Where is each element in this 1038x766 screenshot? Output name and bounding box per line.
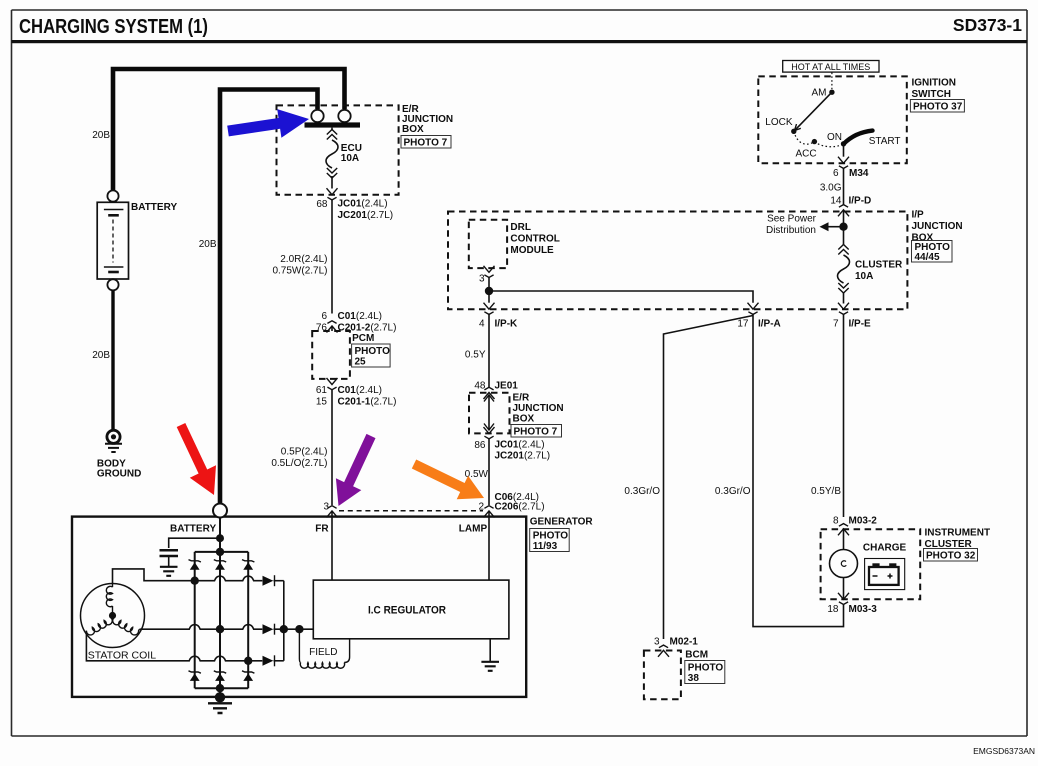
node: phase W tap — [244, 657, 252, 665]
label BODY GROUND — [97, 459, 141, 480]
connector 8 M03-2 — [838, 524, 849, 536]
diode D6 (bottom leg3) — [242, 671, 254, 681]
node: collector to regulator — [280, 625, 288, 633]
dotted detent arc LOCK-ACC-ON — [794, 131, 844, 146]
label BATTERY — [131, 202, 177, 213]
svg-text:18: 18 — [827, 604, 839, 615]
wire node to I/P-A (horizontal) — [489, 291, 753, 303]
svg-text:SD373-1: SD373-1 — [953, 15, 1022, 35]
svg-text:0.3Gr/O: 0.3Gr/O — [624, 486, 660, 497]
svg-text:20B: 20B — [92, 130, 110, 141]
svg-text:48: 48 — [474, 381, 486, 392]
connector 3 M02-1 — [658, 645, 669, 657]
node: field tap — [295, 625, 303, 633]
body ground G01 — [105, 430, 122, 452]
label DRL CONTROL MODULE — [510, 222, 559, 256]
generator B+ terminal circle — [213, 504, 227, 518]
label JC01(2.4L) JC201(2.7L) — [338, 199, 394, 222]
pin 3 (DRL) — [479, 274, 485, 285]
purple callout arrow (FR terminal) — [336, 434, 376, 506]
rectifier top rail — [195, 551, 249, 553]
node: power distribution tap — [839, 223, 847, 231]
svg-text:FIELD: FIELD — [309, 647, 337, 658]
label 0.3Gr/O (right) — [715, 486, 751, 497]
E/R junction box (engine room) dashed outline — [277, 105, 399, 194]
wire into charge lamp — [843, 529, 845, 550]
label JC01(2.4L) JC201(2.7L) (86) — [495, 440, 551, 462]
connector 6/76 C01/C201-2 into PCM — [327, 321, 338, 333]
I/P junction box dashed outline — [448, 212, 907, 310]
svg-text:I/P: I/P — [912, 210, 925, 221]
phase wire W (bottom) — [86, 632, 262, 661]
pin 4 I/P-K — [479, 319, 518, 330]
terminal circle (right stud) — [338, 110, 350, 122]
wire FR into regulator — [331, 511, 333, 580]
diode D9 (phase W output) — [263, 655, 275, 666]
svg-text:15: 15 — [316, 397, 328, 408]
svg-text:EMGSD6373AN: EMGSD6373AN — [973, 746, 1035, 756]
label BCM — [685, 650, 708, 661]
svg-text:7: 7 — [833, 319, 839, 330]
svg-text:17: 17 — [737, 319, 749, 330]
contact AM — [812, 88, 835, 99]
wire DRL to node — [488, 278, 490, 292]
pin 86 — [474, 440, 486, 451]
svg-text:GROUND: GROUND — [97, 469, 141, 480]
label 0.3Gr/O (left) — [624, 486, 660, 497]
svg-text:JUNCTION: JUNCTION — [912, 221, 963, 232]
wire 0.3Gr/O from I/P-A to BCM (diagonal) — [664, 316, 754, 640]
pin 3 M02-1 — [654, 637, 698, 648]
svg-text:4: 4 — [479, 319, 485, 330]
connector 2 (LAMP input) — [484, 506, 495, 518]
svg-text:6: 6 — [833, 168, 839, 179]
label PHOTO 32 — [924, 549, 978, 562]
svg-text:FR: FR — [315, 524, 329, 535]
pin 17 I/P-A — [737, 319, 780, 330]
svg-text:BOX: BOX — [402, 124, 424, 135]
svg-text:3.0G: 3.0G — [820, 183, 842, 194]
field coil L1 — [299, 629, 349, 668]
see power distribution arrow — [820, 222, 844, 231]
fuse ECU 10A — [326, 128, 338, 189]
wire I/P-D to node — [843, 210, 845, 227]
label PCM — [352, 333, 374, 344]
blue callout arrow (E/R junction box terminals) — [227, 109, 309, 138]
svg-text:0.3Gr/O: 0.3Gr/O — [715, 486, 751, 497]
wire 0.5Y/B from I/P-E to cluster — [843, 314, 845, 517]
svg-text:0.5Y: 0.5Y — [465, 350, 486, 361]
svg-text:BOX: BOX — [513, 414, 535, 425]
svg-text:44/45: 44/45 — [915, 252, 940, 263]
label PHOTO 11/93 — [530, 529, 570, 553]
label HOT AT ALL TIMES — [783, 61, 879, 73]
svg-text:0.75W(2.7L): 0.75W(2.7L) — [272, 266, 327, 277]
pin 3 (C06) — [323, 502, 329, 513]
label ECU 10A — [341, 143, 362, 164]
connector 17 I/P-A — [748, 303, 759, 315]
pin 14 I/P-D — [830, 196, 871, 207]
contact ACC — [795, 139, 817, 160]
svg-text:GENERATOR: GENERATOR — [530, 517, 594, 528]
wire 0.5W to generator LAMP — [488, 439, 490, 505]
svg-text:AM: AM — [812, 88, 827, 99]
svg-text:START: START — [869, 136, 901, 147]
svg-text:I/P-A: I/P-A — [758, 319, 781, 330]
drawing code EMGSD6373AN — [973, 746, 1035, 756]
ground (regulator) — [481, 662, 499, 671]
BCM dashed box — [644, 651, 681, 700]
wire diode V to collector / regulator — [274, 628, 314, 630]
label FIELD — [309, 647, 337, 658]
node: DRL/cluster feed junction — [485, 287, 493, 295]
svg-text:ON: ON — [827, 132, 842, 143]
svg-text:0.5P(2.4L): 0.5P(2.4L) — [281, 447, 328, 458]
pin 68 — [316, 199, 328, 210]
svg-text:SWITCH: SWITCH — [912, 89, 951, 100]
node: phase U tap — [191, 577, 199, 585]
svg-text:C01(2.4L): C01(2.4L) — [338, 311, 382, 322]
svg-text:INSTRUMENT: INSTRUMENT — [925, 528, 991, 539]
label GENERATOR — [530, 517, 594, 528]
pass-through wire arrow inside E/R box — [484, 395, 494, 430]
node: case ground — [215, 692, 225, 702]
svg-text:68: 68 — [316, 199, 328, 210]
fuse CLUSTER 10A — [838, 245, 850, 304]
label PHOTO 7 — [401, 136, 451, 149]
svg-text:HOT AT ALL TIMES: HOT AT ALL TIMES — [791, 62, 870, 72]
PCM dashed box — [312, 331, 350, 379]
title: CHARGING SYSTEM (1) — [19, 15, 208, 38]
svg-text:86: 86 — [474, 440, 486, 451]
svg-text:I/P-K: I/P-K — [495, 319, 519, 330]
wire: thick generator output (20B) from E/R junction box to generator B+ — [220, 90, 318, 504]
svg-text:3: 3 — [479, 274, 485, 285]
phase wire U (top) — [113, 569, 263, 584]
wire: thick battery positive feed (20B) from battery to E/R junction box — [113, 69, 345, 192]
label INSTRUMENT CLUSTER — [925, 528, 991, 551]
suppression capacitor C — [160, 538, 221, 566]
label C06(2.4L) C206(2.7L) — [495, 492, 545, 513]
wire 3.0G — [843, 168, 845, 204]
switch blade AM-LOCK — [794, 92, 832, 131]
thick blade ON-START — [844, 131, 901, 147]
svg-text:JE01: JE01 — [495, 381, 519, 392]
svg-text:IGNITION: IGNITION — [912, 78, 956, 89]
svg-text:3: 3 — [654, 637, 660, 648]
svg-text:PCM: PCM — [352, 333, 374, 344]
connector 18 M03-3 — [838, 593, 849, 605]
ground (generator case) — [208, 703, 232, 713]
label E/R JUNCTION BOX — [402, 104, 453, 135]
svg-text:Distribution: Distribution — [766, 225, 816, 236]
svg-text:DRL: DRL — [510, 222, 531, 233]
svg-text:CLUSTER: CLUSTER — [855, 260, 903, 271]
wire node down to I/P-K — [488, 291, 490, 303]
battery BAT01 — [97, 190, 128, 290]
svg-text:BATTERY: BATTERY — [170, 524, 216, 535]
label PHOTO 25 — [352, 344, 391, 368]
svg-text:0.5L/O(2.7L): 0.5L/O(2.7L) — [271, 458, 327, 469]
svg-text:PHOTO 7: PHOTO 7 — [404, 138, 448, 149]
wire ON to M34 — [843, 144, 845, 157]
label C01(2.4L) C201-2(2.7L) — [338, 311, 397, 334]
diode D5 (bottom leg2) — [214, 671, 226, 681]
label 0.5Y — [465, 350, 486, 361]
connector 7 I/P-E — [838, 303, 849, 315]
svg-text:M03-2: M03-2 — [849, 516, 878, 527]
pin 48 JE01 — [474, 381, 518, 392]
svg-text:I/P-E: I/P-E — [849, 319, 872, 330]
label PHOTO 37 — [910, 100, 964, 113]
label 20B (battery feed) — [92, 130, 110, 141]
E/R junction box (pass-through) dashed — [469, 393, 510, 434]
connector 3 (FR input) — [327, 506, 338, 518]
svg-text:JUNCTION: JUNCTION — [513, 403, 564, 414]
wire 0.5Y from I/P-K to JE01 — [488, 314, 490, 381]
wire diode W to collector — [274, 660, 284, 662]
label 0.5Y/B — [811, 486, 841, 497]
label 2.0R(2.4L) 0.75W(2.7L) — [272, 254, 327, 277]
label 0.5W — [465, 469, 489, 480]
svg-text:LAMP: LAMP — [459, 524, 488, 535]
sheet number SD373-1 — [953, 15, 1022, 35]
svg-text:PHOTO: PHOTO — [355, 346, 391, 357]
svg-text:I.C REGULATOR: I.C REGULATOR — [368, 605, 446, 617]
wire to generator ground — [219, 688, 221, 697]
connector 4 I/P-K — [484, 303, 495, 315]
node: stator star point — [109, 612, 116, 619]
svg-text:STATOR COIL: STATOR COIL — [88, 650, 156, 662]
I.C regulator box U2 — [313, 580, 509, 639]
charge battery icon — [865, 559, 905, 590]
DRL control module dashed box — [469, 220, 507, 268]
svg-text:M03-3: M03-3 — [849, 604, 878, 615]
connector 6 M34 — [838, 157, 849, 169]
label PHOTO 44/45 — [912, 241, 953, 264]
diode D4 (bottom leg1) — [189, 671, 201, 681]
svg-text:PHOTO 37: PHOTO 37 — [913, 102, 963, 113]
label See Power Distribution — [766, 214, 817, 237]
svg-text:10A: 10A — [341, 153, 359, 164]
svg-text:BCM: BCM — [685, 650, 708, 661]
stator winding V — [86, 616, 112, 635]
connector 68 JC01/JC201 — [327, 188, 338, 200]
wire B+ terminal down to rectifier — [219, 518, 221, 552]
pins 6 / 76 — [316, 311, 328, 334]
wire M03-3 down — [843, 605, 845, 612]
instrument cluster dashed box — [821, 529, 921, 599]
svg-text:CONTROL: CONTROL — [510, 234, 559, 245]
svg-text:C201-1(2.7L): C201-1(2.7L) — [338, 397, 397, 408]
wire regulator to ground — [489, 639, 491, 661]
diode D8 (phase V output) — [263, 624, 275, 635]
svg-text:See Power: See Power — [767, 214, 817, 225]
svg-text:CHARGE: CHARGE — [863, 543, 907, 554]
ignition switch dashed box — [758, 76, 907, 163]
svg-text:38: 38 — [688, 673, 700, 684]
pin 6 M34 — [833, 168, 869, 179]
svg-text:11/93: 11/93 — [533, 541, 558, 552]
wire 0.3Gr/O from I/P-A down (to cluster return) — [753, 314, 844, 626]
terminal circle (left stud) — [311, 110, 323, 122]
bus bar — [305, 122, 361, 127]
svg-text:20B: 20B — [199, 239, 217, 250]
pin 7 I/P-E — [833, 319, 871, 330]
contact ON — [827, 132, 846, 147]
connector 48 JE01 — [484, 382, 495, 400]
svg-text:C206(2.7L): C206(2.7L) — [495, 502, 545, 513]
pin 8 M03-2 — [833, 516, 877, 527]
label CLUSTER 10A — [855, 260, 903, 283]
node: B+ bus junction — [216, 548, 224, 556]
svg-text:I/P-D: I/P-D — [849, 196, 872, 207]
stator coil housing circle — [81, 584, 145, 648]
svg-text:25: 25 — [355, 357, 367, 368]
svg-text:PHOTO: PHOTO — [688, 663, 724, 674]
label STATOR COIL — [88, 650, 156, 662]
label LAMP — [459, 524, 488, 535]
wire diode U to collector — [274, 580, 284, 582]
label I.C REGULATOR — [368, 605, 446, 617]
svg-text:20B: 20B — [92, 350, 110, 361]
node: capacitor tap — [216, 534, 224, 542]
pins 61 / 15 — [316, 385, 328, 408]
wire node to fuse — [843, 227, 845, 245]
label 0.5P(2.4L) 0.5L/O(2.7L) — [271, 447, 327, 470]
svg-text:LOCK: LOCK — [765, 117, 793, 128]
charge warning lamp L1 — [830, 550, 858, 578]
label CHARGE — [863, 543, 907, 554]
label FR — [315, 524, 329, 535]
rectifier leg 3 — [247, 552, 249, 688]
connector line C06 (dashed) — [339, 510, 483, 512]
svg-text:C01(2.4L): C01(2.4L) — [338, 385, 382, 396]
svg-text:MODULE: MODULE — [510, 245, 554, 256]
svg-text:PHOTO: PHOTO — [533, 531, 569, 542]
label 3.0G — [820, 183, 842, 194]
svg-text:0.5Y/B: 0.5Y/B — [811, 486, 841, 497]
label E/R JUNCTION BOX (small) — [513, 393, 564, 425]
diode D7 (phase U output) — [263, 575, 275, 586]
svg-text:8: 8 — [833, 516, 839, 527]
ground (capacitor) — [160, 567, 178, 576]
collector bus wire — [283, 581, 285, 661]
svg-text:JC201(2.7L): JC201(2.7L) — [495, 451, 551, 462]
svg-text:10A: 10A — [855, 271, 873, 282]
svg-text:JC01(2.4L): JC01(2.4L) — [338, 199, 388, 210]
label PHOTO 7 (small E/R box) — [511, 425, 562, 438]
label PHOTO 38 — [685, 661, 725, 685]
phase wire V (middle) — [140, 625, 263, 630]
rectifier bottom rail — [195, 687, 249, 689]
contact LOCK — [765, 117, 796, 134]
svg-text:PHOTO 7: PHOTO 7 — [514, 427, 558, 438]
label I/P JUNCTION BOX — [912, 210, 963, 244]
rectifier leg 1 — [194, 552, 196, 688]
svg-text:BATTERY: BATTERY — [131, 202, 177, 213]
label IGNITION SWITCH — [912, 78, 956, 101]
svg-text:6: 6 — [321, 311, 327, 322]
wire LAMP into regulator — [488, 511, 490, 580]
diode D1 (top leg1) — [189, 560, 201, 570]
dotted feed into AM — [831, 73, 833, 90]
wire 0.5P/0.5L/O from PCM to generator FR — [331, 390, 333, 505]
wire 2.0R/0.75W from E/R box to PCM — [331, 200, 333, 314]
diode D2 (top leg2) — [214, 560, 226, 570]
connector 14 I/P-D — [838, 205, 849, 217]
svg-text:ACC: ACC — [795, 149, 816, 160]
connector 3 (DRL output) — [484, 266, 495, 278]
svg-text:14: 14 — [830, 196, 842, 207]
pin 2 (C06) — [478, 502, 484, 513]
diode D3 (top leg3) — [242, 560, 254, 570]
label 20B (generator feed) — [199, 239, 217, 250]
svg-text:CHARGING SYSTEM (1): CHARGING SYSTEM (1) — [19, 15, 208, 38]
generator box outline — [72, 517, 526, 697]
node: bottom rail junction — [216, 684, 224, 692]
stator winding U — [106, 584, 112, 616]
label 20B (ground strap) — [92, 350, 110, 361]
label BATTERY (generator terminal) — [170, 524, 216, 535]
red callout arrow (generator B+ terminal) — [177, 423, 216, 495]
pin 18 M03-3 — [827, 604, 877, 615]
stator winding W — [113, 616, 140, 635]
rectifier leg 2 — [219, 552, 221, 688]
connector 86 JC01/JC201 — [484, 427, 495, 439]
svg-text:PHOTO 32: PHOTO 32 — [926, 551, 976, 562]
svg-text:E/R: E/R — [513, 393, 530, 404]
connector 61/15 C01/C201-1 out of PCM — [327, 378, 338, 390]
node: phase V tap — [216, 625, 224, 633]
svg-text:M34: M34 — [849, 168, 869, 179]
svg-text:2.0R(2.4L): 2.0R(2.4L) — [280, 254, 327, 265]
svg-text:M02-1: M02-1 — [670, 637, 699, 648]
wire: battery negative to body ground (20B) — [111, 291, 114, 431]
svg-text:JC201(2.7L): JC201(2.7L) — [338, 210, 394, 221]
wire lamp to M03-3 — [843, 578, 845, 600]
svg-text:61: 61 — [316, 385, 328, 396]
label C01(2.4L) C201-1(2.7L) — [338, 385, 397, 408]
svg-text:JC01(2.4L): JC01(2.4L) — [495, 440, 545, 451]
orange callout arrow (LAMP terminal) — [412, 460, 484, 500]
